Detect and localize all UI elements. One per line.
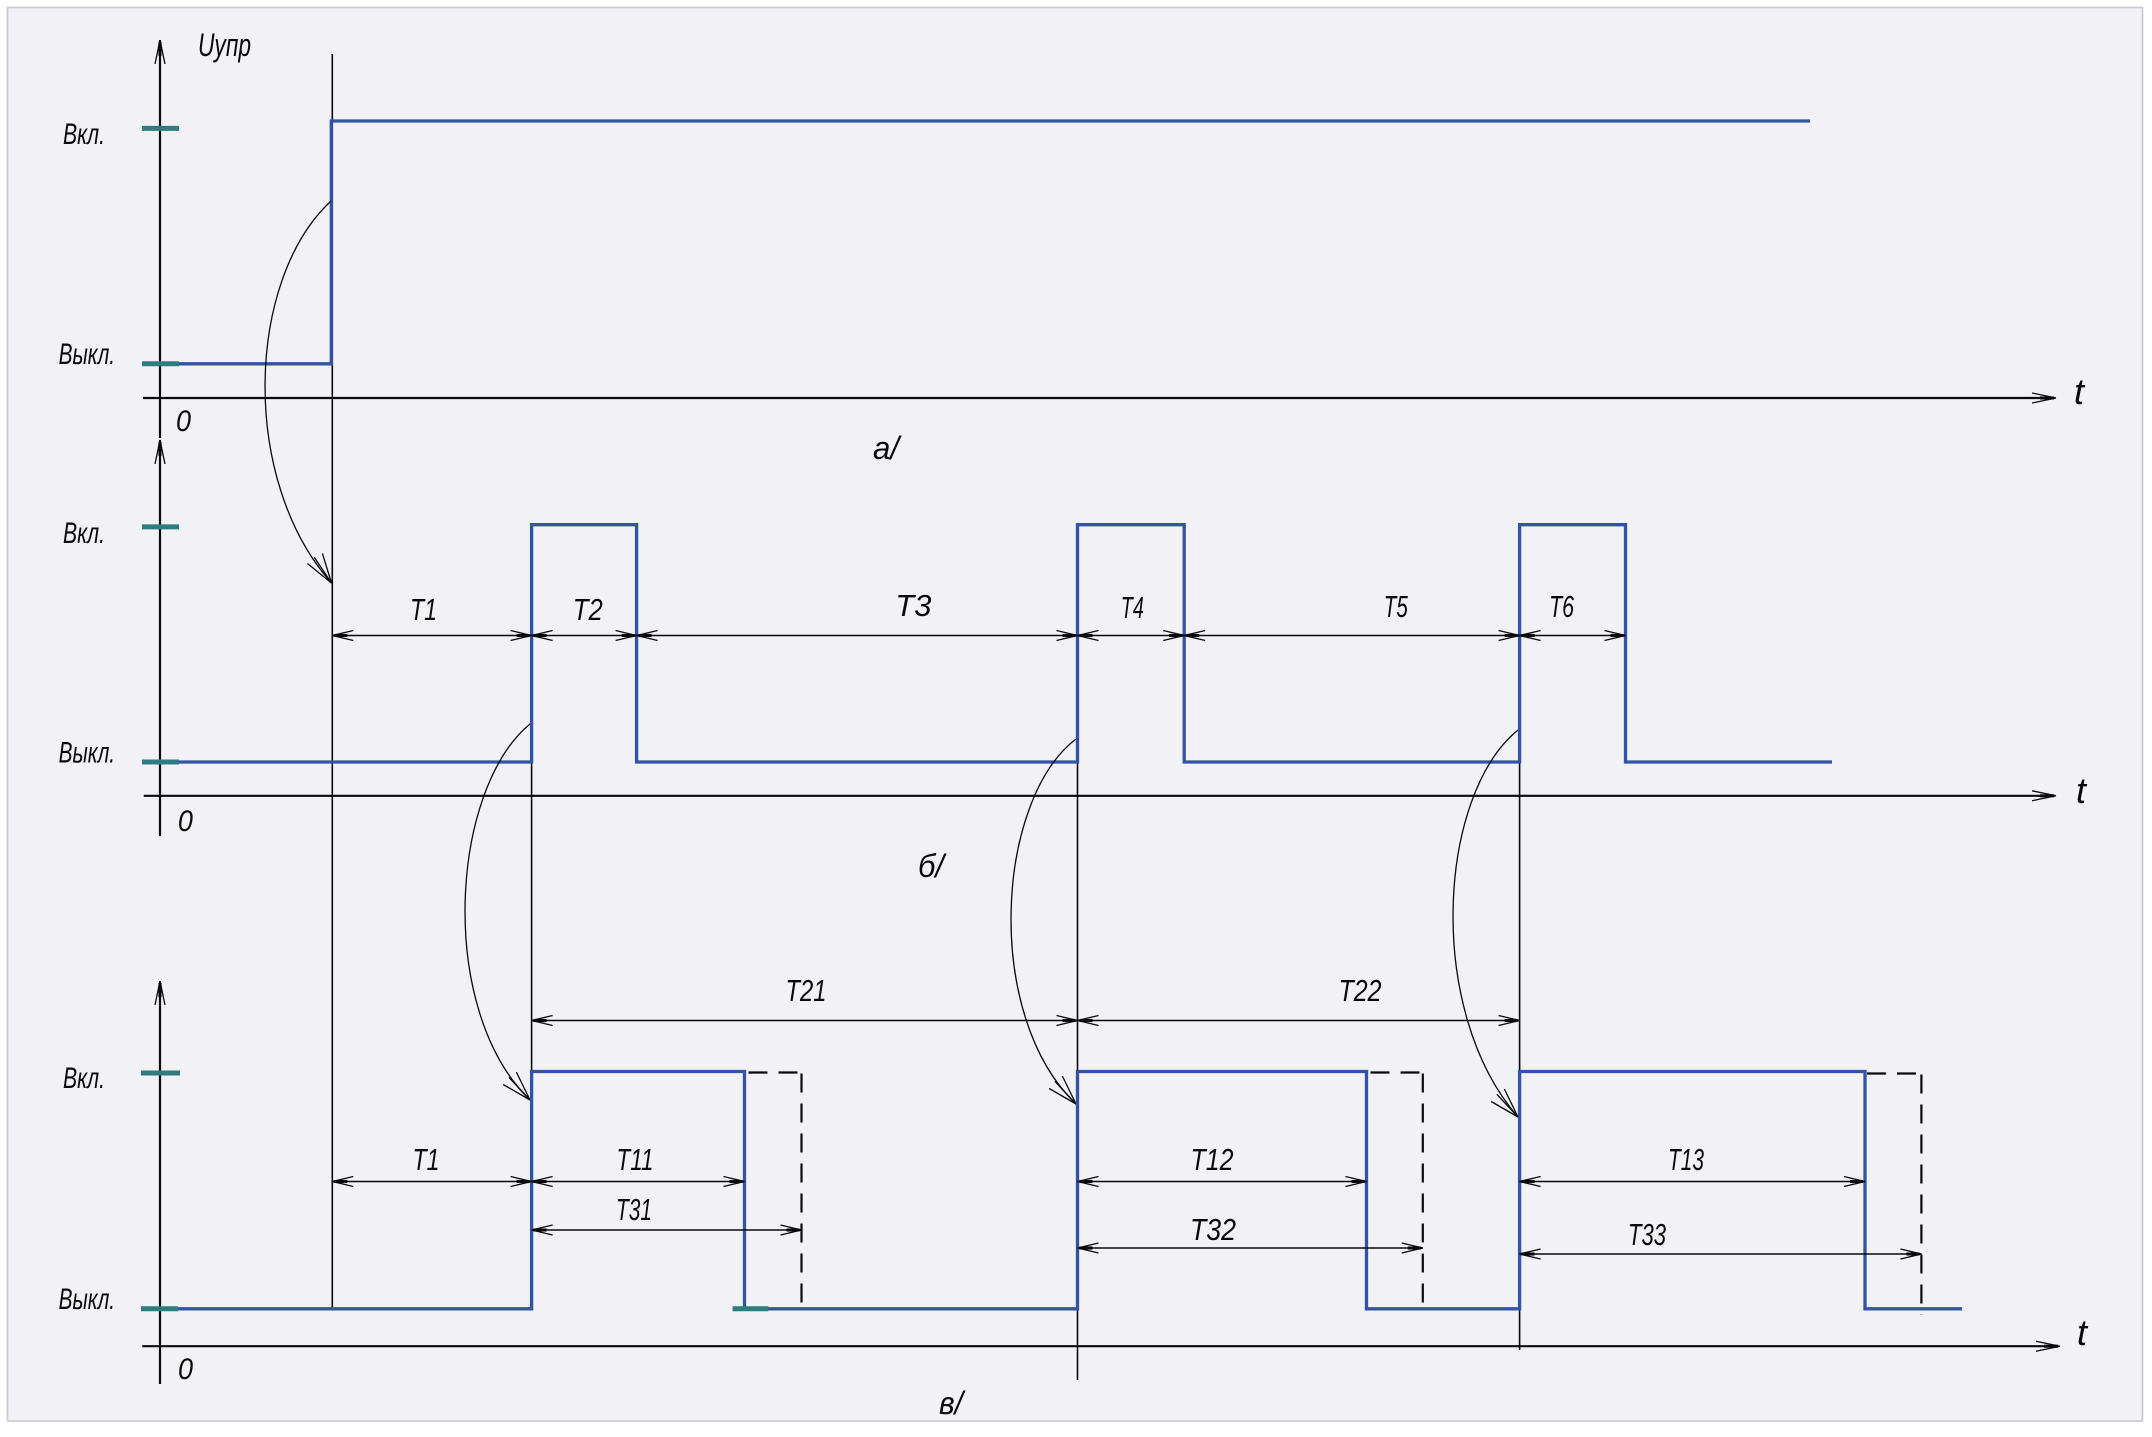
plot b pulse waveform <box>160 525 1832 762</box>
dimension T33 line <box>1520 1249 1922 1259</box>
svg-text:Т21: Т21 <box>786 973 827 1008</box>
dimension T22 line <box>1078 1016 1520 1026</box>
plot v vertical axis <box>155 981 165 1384</box>
plot a vertical axis Uupr <box>155 40 165 438</box>
extension line pulse3 rise <box>1519 525 1521 1350</box>
plot v tick at pulse1 fall <box>733 1306 769 1311</box>
dimension T6 line <box>1520 631 1626 641</box>
plot b tick Vykl <box>142 760 179 765</box>
svg-text:Выкл.: Выкл. <box>59 1283 116 1316</box>
svg-text:Вкл.: Вкл. <box>63 517 105 550</box>
dimension T13 line <box>1520 1177 1865 1187</box>
plot b tick Vkl <box>142 524 179 529</box>
svg-text:Т13: Т13 <box>1668 1142 1704 1177</box>
dimension T5 line <box>1184 631 1519 641</box>
dimension T1 line <box>332 631 531 641</box>
svg-text:Т31: Т31 <box>616 1192 652 1227</box>
svg-text:Т1: Т1 <box>413 1142 440 1177</box>
svg-text:0: 0 <box>176 405 191 438</box>
dashed overtravel pulse1 <box>749 1073 802 1309</box>
svg-text:Т32: Т32 <box>1190 1212 1236 1247</box>
svg-text:Т1: Т1 <box>410 592 437 627</box>
arc arrow pulse2 to plot v <box>1011 739 1076 1104</box>
arc arrow from step to plot b <box>265 201 331 583</box>
svg-text:Выкл.: Выкл. <box>59 338 116 371</box>
plot b horizontal axis t <box>144 791 2056 801</box>
dimension T4 line <box>1078 631 1185 641</box>
svg-text:Т4: Т4 <box>1121 590 1144 625</box>
svg-text:Т12: Т12 <box>1191 1142 1234 1177</box>
svg-text:Вкл.: Вкл. <box>63 118 105 151</box>
svg-text:Вкл.: Вкл. <box>63 1062 105 1095</box>
dimension T11 line <box>532 1177 745 1187</box>
dimension T21 line <box>532 1016 1078 1026</box>
svg-text:Т11: Т11 <box>617 1142 654 1177</box>
svg-text:0: 0 <box>178 1353 193 1386</box>
dimension T32 line <box>1078 1243 1423 1253</box>
svg-text:в/: в/ <box>939 1385 966 1421</box>
plot v pulse waveform <box>160 1072 1962 1309</box>
plot a tick Vykl <box>142 361 179 366</box>
svg-text:0: 0 <box>178 805 193 838</box>
plot b vertical axis <box>155 440 165 836</box>
svg-text:Т22: Т22 <box>1339 973 1382 1008</box>
svg-text:Т5: Т5 <box>1384 589 1408 624</box>
svg-text:а/: а/ <box>873 430 902 466</box>
plot v tick Vykl <box>141 1306 178 1311</box>
extension line pulse2 rise <box>1077 525 1079 1380</box>
svg-text:Т33: Т33 <box>1628 1217 1666 1252</box>
plot a horizontal axis t <box>143 393 2056 403</box>
dimension T2 line <box>532 631 637 641</box>
plot v tick Vkl <box>141 1071 180 1076</box>
plot a tick Vkl <box>142 126 179 131</box>
plot v horizontal axis t <box>142 1341 2060 1351</box>
svg-text:Uупр: Uупр <box>198 27 251 63</box>
plot a signal Uupr step waveform <box>160 121 1810 364</box>
dashed overtravel pulse3 <box>1867 1074 1921 1315</box>
svg-text:б/: б/ <box>918 848 947 884</box>
svg-text:Выкл.: Выкл. <box>59 737 116 770</box>
arc arrow pulse3 to plot v <box>1453 730 1518 1117</box>
extension line pulse1 rise <box>531 525 533 1072</box>
dimension T1 line <box>332 1177 531 1187</box>
dashed overtravel pulse2 <box>1371 1073 1423 1309</box>
dimension T12 line <box>1078 1177 1367 1187</box>
svg-text:Т3: Т3 <box>895 588 931 623</box>
svg-text:Т6: Т6 <box>1549 589 1575 624</box>
arc arrow pulse1 to plot v <box>465 724 530 1100</box>
dimension T31 line <box>532 1225 802 1235</box>
svg-text:Т2: Т2 <box>573 592 603 627</box>
switch-on time vertical line <box>331 54 333 1309</box>
dimension T3 line <box>637 631 1078 641</box>
